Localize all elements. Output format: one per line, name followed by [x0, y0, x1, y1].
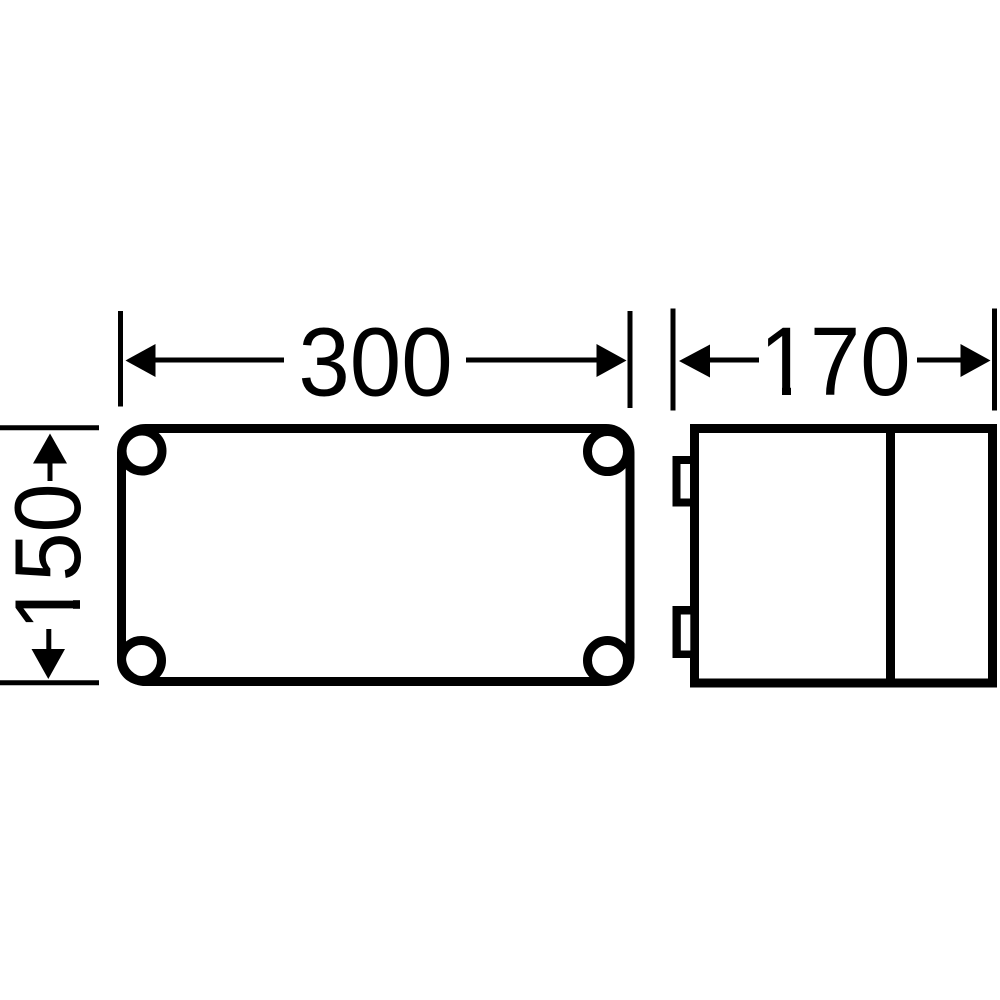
dimension 300: right extension line [628, 311, 633, 408]
top view rounded enclosure body [122, 429, 631, 682]
svg-text:170: 170 [759, 307, 910, 416]
dimension 300: left extension line [118, 311, 123, 407]
dimension 150: top extension line [0, 425, 99, 430]
dimension 170: right leader line [917, 358, 962, 363]
screw hole bottom-right [588, 641, 628, 681]
dimension 170: left arrowhead [679, 345, 710, 378]
dimension 170: right extension line [992, 309, 997, 411]
dimension 300: left leader line [154, 358, 284, 363]
dimension 300: right leader line [466, 358, 598, 363]
dimension 300: right arrowhead [597, 344, 627, 377]
svg-text:150: 150 [0, 483, 101, 630]
dimension 150: down arrowhead [32, 649, 66, 679]
dimension 170: left extension line [671, 309, 676, 411]
dimension 300: left arrowhead [126, 344, 156, 377]
white patch removing "1" foot serif (170) [765, 386, 782, 397]
mounting tab lower [673, 606, 699, 658]
svg-text:300: 300 [298, 308, 452, 416]
side view lid divider line [886, 428, 895, 683]
dimension 150: lower leader line [46, 629, 51, 650]
dimension 170: left leader line [709, 358, 759, 363]
dimension 150: bottom extension line [0, 680, 99, 685]
dimension 170: label text [759, 307, 910, 416]
dimension 150: up arrowhead [33, 434, 67, 464]
screw hole top-left [122, 431, 162, 471]
white patch removing "1" foot serif (rotated 150) [72, 585, 82, 601]
dimension 170: right arrowhead [961, 344, 991, 377]
dimension 300: label text [298, 308, 452, 416]
dimension 150: label text (rotated) [0, 483, 101, 630]
mounting tab upper [673, 456, 699, 507]
screw hole top-right [588, 432, 628, 472]
dimension 150: upper leader line [48, 462, 53, 481]
screw hole bottom-left [122, 641, 162, 681]
side view box outline [695, 429, 993, 684]
